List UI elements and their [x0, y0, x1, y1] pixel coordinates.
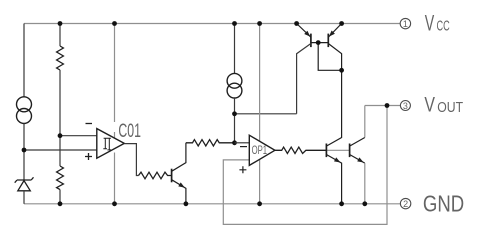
resistor R1 — [57, 46, 64, 70]
node mirror diode junction dot — [339, 68, 344, 73]
node GND rail dots — [58, 201, 262, 206]
wire divider top segment — [59, 24, 61, 47]
wire R2 to GND rail — [59, 190, 61, 204]
U2 minus sign — [240, 146, 247, 148]
zener diode D1 — [15, 177, 34, 191]
svg-text:3: 3 — [403, 101, 408, 111]
terminal 1 Vcc — [400, 18, 410, 29]
wire Vcc top rail — [24, 23, 400, 25]
wire GND bottom rail — [24, 203, 400, 205]
transistor Q1b PNP emitter — [328, 24, 341, 38]
U1 plus sign — [85, 153, 92, 160]
label Vout — [424, 93, 463, 116]
Q1a base bar — [310, 34, 312, 48]
terminal 2 GND — [400, 198, 410, 209]
Q3 emitter junction dot — [339, 201, 344, 206]
terminal 3 Vout — [400, 101, 410, 111]
Q3 collector — [326, 70, 341, 146]
Q1b emitter arrow — [329, 31, 335, 37]
svg-text:V: V — [424, 93, 435, 116]
transistor Q2 base bar — [171, 169, 173, 183]
svg-text:2: 2 — [403, 199, 408, 209]
resistor R5 — [275, 147, 327, 153]
op-amp U1 C01 triangle — [97, 129, 125, 159]
wire OP1 supply through — [259, 24, 261, 204]
wire CS2 to node B — [234, 98, 236, 143]
Q2 emitter — [172, 180, 186, 204]
node Vcc rail dots — [58, 21, 344, 26]
svg-text:CC: CC — [437, 18, 450, 34]
label Vcc — [425, 11, 450, 36]
transistor Q3 base bar — [325, 144, 327, 158]
wire R1 to R2 — [59, 70, 61, 166]
wire C01 ground lead — [114, 153, 116, 204]
node mirror base junction dot — [316, 40, 321, 45]
Q1b collector — [328, 44, 341, 71]
Q3 emitter arrow — [334, 157, 341, 162]
wire C01 output — [124, 144, 138, 176]
current source CS2 — [227, 73, 242, 98]
resistor R2 — [57, 166, 64, 190]
wire Q3 Q4 base link — [326, 149, 349, 151]
U1 hysteresis symbol — [103, 138, 111, 150]
svg-text:1: 1 — [403, 19, 408, 29]
transistor Q1a PNP emitter — [297, 24, 311, 38]
wire OP1 minus input — [235, 142, 250, 144]
resistor R4 — [186, 140, 235, 146]
Q1a collector — [297, 44, 311, 114]
Q4 emitter arrow — [357, 157, 364, 162]
current source CS1 — [17, 97, 32, 124]
node B junction dot — [232, 111, 237, 116]
Q4 emitter — [350, 155, 365, 164]
svg-text:C01: C01 — [118, 121, 140, 142]
wire zener to GND rail — [23, 191, 25, 204]
wire mirror base tie — [311, 43, 342, 71]
Q2 collector — [172, 143, 186, 172]
Q2 emitter arrow — [178, 182, 185, 187]
U1 minus sign — [86, 123, 93, 125]
node divider junction dot — [58, 133, 63, 138]
wire C01 Vcc supply — [114, 24, 116, 139]
wire C01 plus input from node A — [24, 149, 97, 151]
wire feedback box — [223, 106, 387, 225]
wire CS1 to node A — [23, 124, 25, 181]
wire C01 minus input — [60, 135, 97, 137]
Q2 emitter junction dot — [184, 201, 189, 206]
Q1b base bar — [327, 34, 329, 48]
node A junction dot — [22, 148, 27, 153]
node OP1 minus junction dot — [232, 140, 237, 145]
svg-text:V: V — [425, 11, 435, 36]
op-amp U2 OP1 triangle — [249, 135, 275, 165]
wire left branch upper segment — [23, 24, 25, 97]
svg-text:GND: GND — [423, 191, 464, 217]
resistor R3 — [139, 172, 172, 179]
wire CS2 feed from Vcc — [234, 24, 236, 74]
Q3 emitter — [326, 155, 341, 204]
Q4 emitter junction dot — [362, 201, 367, 206]
Q4 collector — [350, 138, 365, 147]
svg-text:OP1: OP1 — [252, 145, 268, 157]
wire node B to mirror collector — [235, 113, 297, 115]
transistor Q4 base bar — [349, 144, 351, 158]
node Vout junction dot — [385, 103, 390, 108]
wire Vout node — [365, 105, 401, 107]
Q1a emitter arrow — [304, 31, 310, 37]
svg-text:OUT: OUT — [437, 99, 463, 116]
U2 plus sign — [239, 166, 246, 173]
